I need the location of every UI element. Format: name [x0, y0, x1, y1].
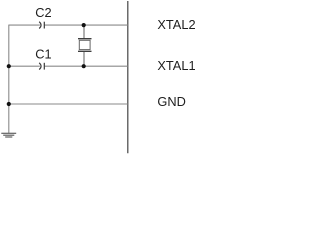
- svg-text:XTAL1: XTAL1: [157, 58, 195, 73]
- capacitor C2: [39, 22, 44, 29]
- junction dot left bus / GND: [7, 102, 11, 106]
- svg-text:C2: C2: [35, 5, 51, 20]
- IC boundary vertical line: [127, 1, 129, 153]
- svg-text:C1: C1: [35, 46, 51, 61]
- wire left vertical bus: [8, 25, 10, 133]
- crystal Y1: [78, 25, 92, 66]
- wire XTAL2 net left segment: [9, 24, 40, 26]
- junction dot XTAL2/crystal: [82, 23, 86, 27]
- svg-text:GND: GND: [157, 94, 185, 109]
- ground symbol: [1, 133, 16, 137]
- capacitor C1: [39, 63, 44, 70]
- wire XTAL2 net right segment: [45, 24, 128, 26]
- junction dot XTAL1/crystal: [82, 64, 86, 68]
- wire XTAL1 net left segment: [9, 65, 40, 67]
- junction dot left bus / XTAL1: [7, 64, 11, 68]
- wire GND net: [9, 103, 128, 105]
- svg-text:XTAL2: XTAL2: [157, 17, 195, 32]
- wire XTAL1 net right segment: [45, 65, 128, 67]
